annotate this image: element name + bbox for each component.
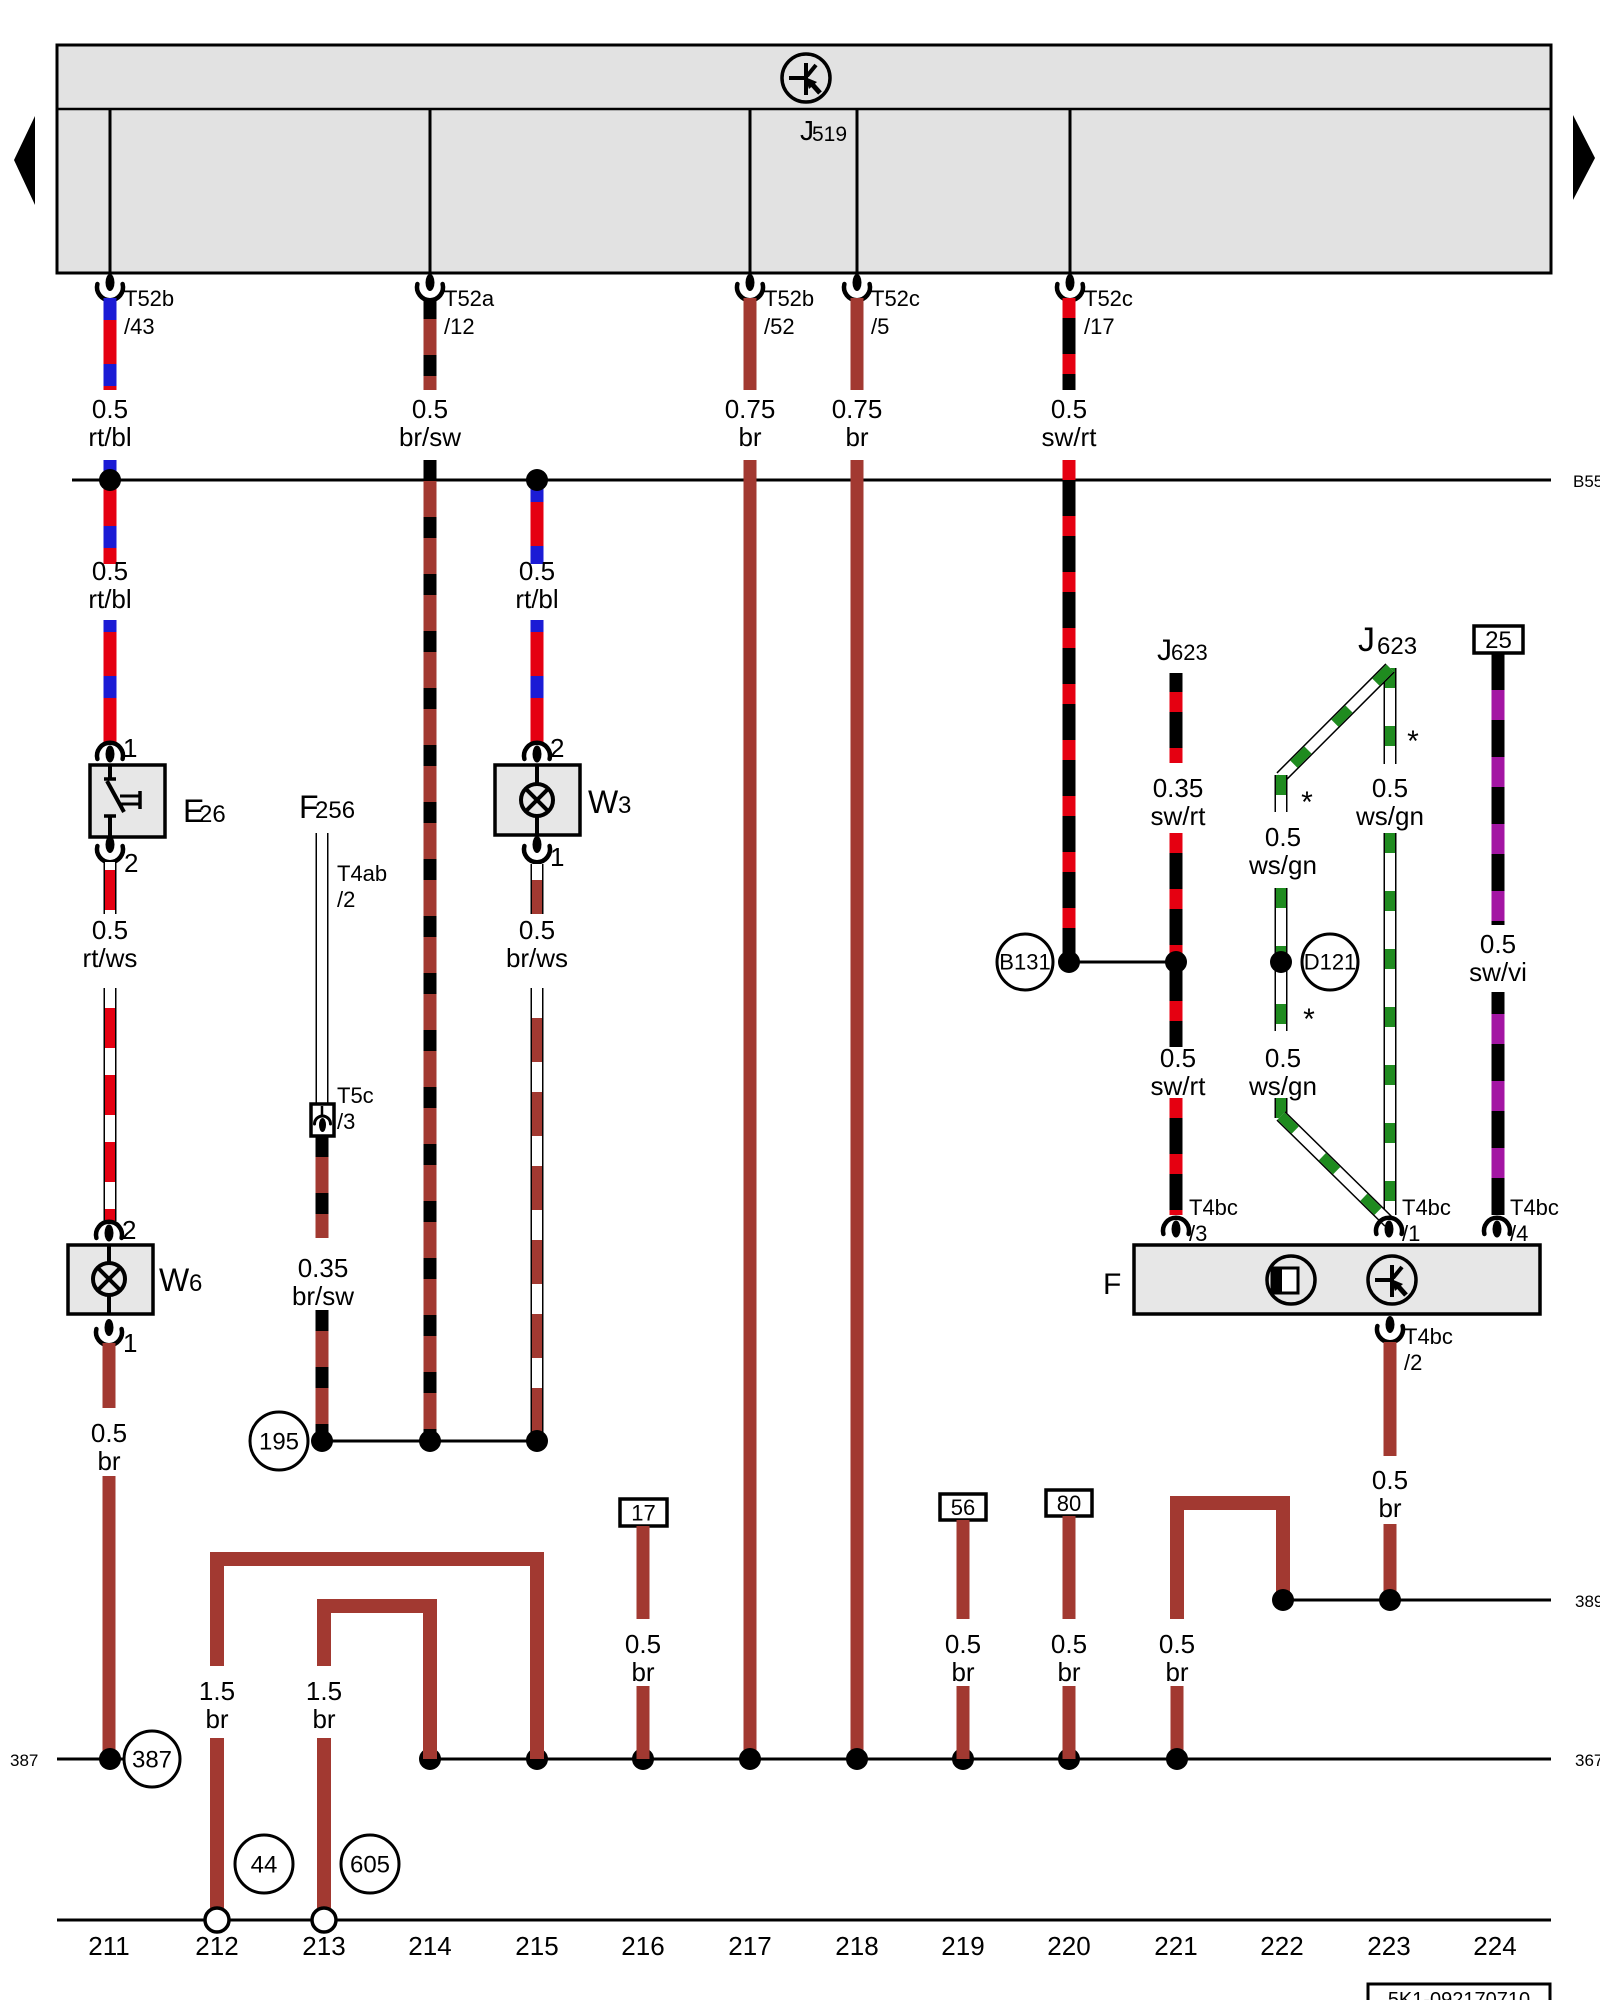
svg-text:/5: /5	[871, 314, 889, 339]
wire 0.5 sw/rt from T52c/17	[1063, 298, 1076, 390]
wire 0.5 sw/vi from box 25	[1492, 653, 1505, 925]
wire br to line 389	[1384, 1524, 1397, 1600]
svg-text:T52c: T52c	[871, 286, 920, 311]
svg-text:T4bc: T4bc	[1402, 1195, 1451, 1220]
svg-text:387: 387	[132, 1746, 172, 1773]
wire 0.5 br from box 17	[637, 1526, 650, 1619]
svg-text:215: 215	[515, 1931, 558, 1961]
track reference box 25	[1474, 626, 1523, 653]
svg-text:217: 217	[728, 1931, 771, 1961]
svg-text:3: 3	[618, 792, 631, 819]
wire 0.5 br from box 56	[957, 1520, 970, 1619]
svg-text:br/sw: br/sw	[399, 422, 461, 452]
wire br track 216 to 367	[637, 1686, 650, 1759]
wire br to line 367 track 217	[744, 460, 757, 1759]
svg-text:0.5: 0.5	[625, 1629, 661, 1659]
component F box	[1134, 1245, 1540, 1314]
svg-text:*: *	[1407, 725, 1419, 758]
reference circle D121	[1302, 934, 1358, 990]
wire 0.5 br below T4bc/2	[1384, 1342, 1397, 1456]
fuel gauge icon in F	[1267, 1256, 1315, 1304]
svg-text:0.5: 0.5	[92, 915, 128, 945]
svg-text:T52b: T52b	[764, 286, 814, 311]
wire 0.75 br from T52c/5	[851, 298, 864, 390]
svg-text:224: 224	[1473, 1931, 1516, 1961]
svg-text:B131: B131	[999, 950, 1050, 975]
svg-text:1.5: 1.5	[199, 1676, 235, 1706]
svg-text:D121: D121	[1304, 950, 1357, 975]
track reference box 17	[620, 1499, 667, 1526]
wire br from W6 to ground line 387	[103, 1476, 116, 1759]
svg-text:0.35: 0.35	[1153, 773, 1204, 803]
lamp symbol W3	[535, 765, 539, 784]
svg-text:J: J	[1358, 621, 1375, 659]
wire 0.5 br from box 80	[1063, 1516, 1076, 1619]
wire ws/gn lower stub	[1275, 1098, 1288, 1118]
svg-text:rt/bl: rt/bl	[515, 584, 558, 614]
svg-text:br/ws: br/ws	[506, 943, 568, 973]
svg-text:0.5: 0.5	[91, 1418, 127, 1448]
svg-text:0.75: 0.75	[725, 394, 776, 424]
svg-text:br: br	[1165, 1657, 1188, 1687]
connector T52b/43 at J519	[97, 284, 123, 300]
svg-text:220: 220	[1047, 1931, 1090, 1961]
svg-text:0.5: 0.5	[1051, 1629, 1087, 1659]
junction dot D121	[1270, 951, 1292, 973]
svg-text:br: br	[312, 1704, 335, 1734]
bottom track rail	[57, 1919, 1551, 1922]
svg-text:/52: /52	[764, 314, 795, 339]
internal pin stub x=110	[109, 109, 112, 278]
wire ws/gn diagonal to T4bc/1	[1281, 1116, 1389, 1222]
lamp W3 box	[495, 765, 580, 835]
svg-text:0.5: 0.5	[519, 915, 555, 945]
wire sw/rt to node B131	[1063, 460, 1076, 962]
wire ws/gn diagonal from J623 peak	[1281, 668, 1390, 777]
svg-text:br: br	[97, 1446, 120, 1476]
svg-text:221: 221	[1154, 1931, 1197, 1961]
connector pin 1 of E26	[97, 743, 123, 759]
svg-text:5K1-092170710: 5K1-092170710	[1388, 1989, 1530, 2000]
svg-text:rt/bl: rt/bl	[88, 584, 131, 614]
wire 0.5 br/ws below W3	[531, 864, 544, 914]
svg-text:0.5: 0.5	[1265, 822, 1301, 852]
svg-text:br: br	[738, 422, 761, 452]
svg-text:0.5: 0.5	[1372, 1465, 1408, 1495]
svg-text:0.75: 0.75	[832, 394, 883, 424]
svg-text:/2: /2	[1404, 1350, 1422, 1375]
svg-text:W: W	[588, 784, 619, 820]
svg-text:ws/gn: ws/gn	[1248, 850, 1317, 880]
wire 0.5 rt/bl to W3	[531, 480, 544, 564]
junction on B559 at x537	[526, 469, 548, 491]
node line B559	[72, 479, 1551, 482]
svg-text:T52a: T52a	[444, 286, 495, 311]
svg-text:195: 195	[259, 1428, 299, 1455]
internal pin stub x=1070	[1069, 109, 1072, 278]
svg-text:0.5: 0.5	[412, 394, 448, 424]
detent symbol of E26	[120, 795, 139, 798]
junction dot at B131	[1058, 951, 1080, 973]
svg-text:387: 387	[10, 1751, 38, 1770]
svg-text:211: 211	[88, 1931, 129, 1961]
svg-text:623: 623	[1377, 633, 1417, 660]
wire 0.75 br from T52b/52	[744, 298, 757, 390]
svg-text:br: br	[845, 422, 868, 452]
svg-text:/3: /3	[337, 1109, 355, 1134]
wire 0.5 ws/gn vertical from J623	[1384, 668, 1397, 764]
connector pin 2 of E26	[97, 846, 123, 862]
svg-text:1: 1	[123, 1328, 137, 1358]
lamp W6 box	[68, 1245, 153, 1314]
internal pin stub x=430	[429, 109, 432, 278]
wire rt/bl to node B559	[104, 460, 117, 564]
connector T4bc/2 below F	[1377, 1326, 1403, 1342]
wire 1.5 br track 212 to ground	[210, 1738, 224, 1908]
ground reference circle 195	[250, 1412, 308, 1470]
svg-text:519: 519	[812, 123, 847, 146]
svg-text:26: 26	[199, 801, 226, 828]
svg-text:br: br	[951, 1657, 974, 1687]
svg-text:0.5: 0.5	[1480, 929, 1516, 959]
svg-text:218: 218	[835, 1931, 878, 1961]
wire link B131 junctions	[1069, 961, 1176, 964]
svg-text:/1: /1	[1402, 1221, 1420, 1246]
svg-text:*: *	[1301, 786, 1313, 819]
svg-text:56: 56	[951, 1495, 975, 1520]
svg-text:br: br	[1057, 1657, 1080, 1687]
ground reference circle 387	[124, 1731, 180, 1787]
wire br L-shape from 389 to track 221	[1177, 1503, 1283, 1619]
svg-text:2: 2	[550, 733, 564, 763]
node line 387 left segment	[57, 1758, 125, 1761]
connector T4bc/3 on F	[1163, 1218, 1189, 1234]
svg-text:2: 2	[124, 848, 138, 878]
svg-text:0.5: 0.5	[92, 394, 128, 424]
switch contact symbol in E26	[108, 765, 112, 778]
svg-text:sw/rt: sw/rt	[1042, 422, 1098, 452]
wire 1.5 br outer U from track 212 to 367	[217, 1559, 537, 1759]
switch E26 box	[90, 765, 165, 837]
svg-text:sw/rt: sw/rt	[1151, 801, 1207, 831]
svg-text:T5c: T5c	[337, 1083, 374, 1108]
svg-text:br: br	[1378, 1493, 1401, 1523]
lamp symbol W6	[107, 1245, 111, 1264]
svg-text:0.5: 0.5	[1159, 1629, 1195, 1659]
wire sw/rt to T4bc/3	[1170, 1098, 1183, 1215]
svg-text:rt/bl: rt/bl	[88, 422, 131, 452]
svg-text:T52b: T52b	[124, 286, 174, 311]
svg-text:0.5: 0.5	[1372, 773, 1408, 803]
svg-text:1: 1	[550, 842, 564, 872]
svg-text:/4: /4	[1510, 1221, 1528, 1246]
svg-text:0.35: 0.35	[298, 1253, 349, 1283]
connector T4bc/4 on F	[1484, 1218, 1510, 1234]
svg-text:J: J	[1157, 634, 1172, 667]
junction dot on sw/rt wire	[1165, 951, 1187, 973]
svg-text:25: 25	[1485, 627, 1512, 654]
svg-text:219: 219	[941, 1931, 984, 1961]
connector T52b/52 at J519	[737, 284, 763, 300]
svg-text:80: 80	[1057, 1491, 1081, 1516]
svg-text:sw/vi: sw/vi	[1469, 957, 1527, 987]
wire br/ws to node 195	[531, 988, 544, 1441]
svg-text:/43: /43	[124, 314, 155, 339]
svg-text:1.5: 1.5	[306, 1676, 342, 1706]
track reference box 80	[1046, 1490, 1092, 1516]
svg-text:T4ab: T4ab	[337, 861, 387, 886]
ground circle 44	[235, 1835, 293, 1893]
svg-text:389: 389	[1575, 1592, 1600, 1611]
wire 0.5 rt/ws below E26	[104, 862, 117, 914]
wire 1.5 br inner U from track 213 to 367	[324, 1606, 430, 1759]
ground reference circle B131	[997, 934, 1053, 990]
svg-text:T52c: T52c	[1084, 286, 1133, 311]
junction dot 387	[99, 1748, 121, 1770]
svg-text:ws/gn: ws/gn	[1248, 1071, 1317, 1101]
wire 0.35 sw/rt from J623	[1170, 673, 1183, 763]
svg-text:0.5: 0.5	[1160, 1043, 1196, 1073]
wire br track 220 to 367	[1063, 1686, 1076, 1759]
svg-text:/17: /17	[1084, 314, 1115, 339]
svg-text:ws/gn: ws/gn	[1355, 801, 1424, 831]
track reference box 56	[940, 1494, 986, 1520]
svg-text:17: 17	[631, 1500, 655, 1525]
single connector T5c/3	[311, 1104, 334, 1136]
ground circle 605	[341, 1835, 399, 1893]
svg-text:256: 256	[315, 797, 355, 824]
svg-text:br: br	[631, 1657, 654, 1687]
node line 389	[1283, 1599, 1551, 1602]
svg-text:0.5: 0.5	[1265, 1043, 1301, 1073]
svg-text:/12: /12	[444, 314, 475, 339]
connector T52c/5 at J519	[844, 284, 870, 300]
svg-text:1: 1	[123, 733, 137, 763]
svg-text:F: F	[1103, 1268, 1121, 1301]
svg-text:213: 213	[302, 1931, 345, 1961]
svg-text:223: 223	[1367, 1931, 1410, 1961]
svg-text:T4bc: T4bc	[1510, 1195, 1559, 1220]
wire ws/gn stub below diagonal	[1275, 775, 1288, 812]
wire br/sw to node 195	[316, 1310, 329, 1441]
right continuation arrow	[1573, 115, 1595, 200]
svg-text:0.5: 0.5	[945, 1629, 981, 1659]
junction dots on line 367	[419, 1748, 441, 1770]
connector T4bc/1 on F	[1376, 1218, 1402, 1234]
svg-text:T4bc: T4bc	[1404, 1324, 1453, 1349]
wire 0.5 rt/bl from T52b/43	[104, 298, 117, 390]
ground connection circle at 212	[205, 1908, 229, 1932]
svg-text:/3: /3	[1189, 1221, 1207, 1246]
wire 0.5 br below W6	[103, 1343, 116, 1408]
long wire br/sw to node 195	[424, 460, 437, 1441]
svg-text:br/sw: br/sw	[292, 1281, 354, 1311]
wire sw/rt through B131 node	[1170, 833, 1183, 1047]
wire br to line 367 track 218	[851, 460, 864, 1759]
svg-text:214: 214	[408, 1931, 451, 1961]
connector pin 1 of W6	[96, 1329, 122, 1345]
wire ws/gn vertical to T4bc/1	[1384, 833, 1397, 1215]
svg-text:216: 216	[621, 1931, 664, 1961]
junction on B559 at x110	[99, 469, 121, 491]
svg-text:br: br	[205, 1704, 228, 1734]
svg-text:222: 222	[1260, 1931, 1303, 1961]
svg-text:605: 605	[350, 1851, 390, 1878]
junction dots on 389	[1272, 1589, 1294, 1611]
connector pin 1 of W3	[524, 846, 550, 862]
ground connection circle at 213	[312, 1908, 336, 1932]
svg-text:*: *	[1303, 1003, 1315, 1036]
wire br track 219 to 367	[957, 1686, 970, 1759]
internal pin stub x=857	[856, 109, 859, 278]
bus symbol on J519	[782, 54, 830, 102]
svg-text:367: 367	[1575, 1751, 1600, 1770]
connector T52c/17 at J519	[1057, 284, 1083, 300]
node line 195	[322, 1440, 537, 1443]
svg-text:rt/ws: rt/ws	[83, 943, 138, 973]
wire 0.35 br/sw below T5c	[316, 1136, 329, 1238]
control unit J519 box	[57, 45, 1551, 273]
wire 1.5 br track 213 to ground	[317, 1738, 331, 1908]
svg-text:0.5: 0.5	[92, 556, 128, 586]
node line 367	[430, 1758, 1551, 1761]
diagram number box	[1368, 1984, 1550, 2000]
wire 0.35 ws from F256	[316, 833, 329, 1104]
internal pin stub x=750	[749, 109, 752, 278]
svg-text:B559: B559	[1573, 472, 1600, 491]
wire sw/vi to T4bc/4	[1492, 992, 1505, 1215]
wire 0.5 br/sw from T52a/12	[424, 298, 437, 390]
junction dots on node 195	[311, 1430, 333, 1452]
svg-text:44: 44	[251, 1851, 278, 1878]
svg-text:0.5: 0.5	[519, 556, 555, 586]
svg-text:/2: /2	[337, 887, 355, 912]
wire rt/bl to E26 pin1	[104, 620, 117, 744]
wire br track 221 to line 367	[1171, 1686, 1184, 1759]
left continuation arrow	[14, 116, 35, 205]
svg-text:sw/rt: sw/rt	[1151, 1071, 1207, 1101]
svg-text:212: 212	[195, 1931, 238, 1961]
svg-text:623: 623	[1171, 640, 1208, 665]
wire ws/gn through D121	[1275, 888, 1288, 1031]
connector T52a/12 at J519	[417, 284, 443, 300]
wire rt/bl to W3 pin2	[531, 620, 544, 744]
bus icon in F	[1368, 1256, 1416, 1304]
svg-text:T4bc: T4bc	[1189, 1195, 1238, 1220]
svg-text:2: 2	[122, 1215, 136, 1245]
connector pin 2 of W3	[524, 743, 550, 759]
svg-text:0.5: 0.5	[1051, 394, 1087, 424]
wire rt/ws to W6	[104, 988, 117, 1221]
connector pin 2 of W6	[96, 1222, 122, 1238]
svg-text:W: W	[159, 1262, 190, 1298]
svg-text:6: 6	[189, 1270, 202, 1297]
